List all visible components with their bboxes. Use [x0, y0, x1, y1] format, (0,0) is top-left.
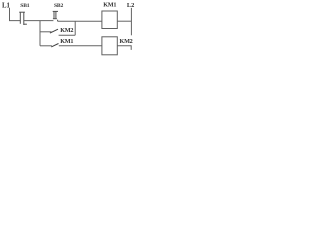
- svg-text:L2: L2: [127, 2, 134, 9]
- svg-text:SB2: SB2: [54, 3, 63, 9]
- coil KM1 box: [102, 11, 117, 29]
- pushbutton SB2 (NO start button): [53, 11, 58, 21]
- wire coil KM2 right: [118, 46, 132, 50]
- svg-text:KM1: KM1: [60, 38, 73, 45]
- contact KM1 blade: [51, 44, 58, 47]
- pushbutton SB1 (NC stop button): [19, 12, 27, 25]
- wire branch right vertical: [74, 21, 76, 35]
- svg-text:KM2: KM2: [60, 27, 73, 34]
- svg-text:KM1: KM1: [103, 2, 116, 9]
- contact KM1 rung left wire: [40, 45, 52, 47]
- wire SB1 to SB2: [24, 20, 54, 22]
- contact KM2 blade: [50, 29, 58, 33]
- coil KM2 box: [102, 37, 117, 55]
- wire L1 lead: [10, 8, 21, 21]
- wire L2 bus: [130, 8, 132, 35]
- svg-text:KM2: KM2: [120, 38, 133, 45]
- contact KM2 branch right wire: [59, 34, 76, 36]
- svg-text:SB1: SB1: [20, 3, 29, 9]
- wire coil KM1 to L2: [118, 20, 132, 22]
- wire SB2 to coil KM1: [58, 20, 102, 22]
- contact KM1 rung right wire: [59, 45, 102, 47]
- contact KM2 branch left wire: [40, 31, 52, 33]
- wire branch vertical at node A: [39, 21, 41, 46]
